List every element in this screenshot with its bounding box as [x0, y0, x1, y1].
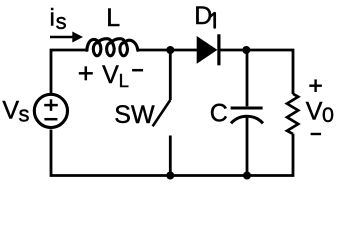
wire: inductor to diode anode — [137, 49, 197, 52]
label +VL- : minus — [132, 69, 143, 72]
voltage source plus sign — [44, 99, 58, 111]
svg-text:s: s — [19, 101, 30, 126]
svg-text:SW: SW — [114, 101, 155, 129]
label + (output) — [309, 79, 322, 92]
voltage source minus sign — [44, 118, 57, 121]
svg-text:V: V — [2, 96, 19, 124]
inductor L1 coil — [87, 39, 138, 56]
capacitor C top plate — [231, 107, 263, 110]
svg-text:V: V — [102, 61, 119, 89]
svg-text:0: 0 — [322, 103, 334, 127]
junction dot: capacitor bottom node — [243, 172, 251, 180]
svg-text:C: C — [210, 100, 228, 128]
junction dot: switch bottom node — [166, 172, 174, 180]
voltage source VS circle — [34, 94, 67, 127]
wire left branch: source to top-left corner and top rail to inductor — [51, 50, 88, 93]
junction dot: capacitor top node — [242, 46, 250, 54]
capacitor C bottom curved plate — [231, 116, 263, 123]
wire: switch bottom stub — [169, 136, 172, 176]
resistor R (load) zigzag — [287, 94, 298, 134]
label - (output) — [311, 133, 322, 135]
wire: switch top branch — [169, 50, 172, 100]
svg-text:L: L — [119, 70, 129, 91]
diode D1 triangle — [197, 36, 218, 64]
switch SW blade (open) — [153, 100, 171, 126]
wire: diode cathode to top-right corner, down to resistor — [218, 50, 293, 94]
label +VL- : plus — [79, 66, 93, 80]
current arrow is — [50, 36, 73, 39]
wire: capacitor top branch — [246, 50, 249, 106]
svg-text:i: i — [50, 5, 55, 32]
diode D1 cathode bar — [217, 34, 220, 65]
svg-text:V: V — [306, 97, 323, 125]
svg-text:s: s — [56, 9, 67, 34]
svg-text:L: L — [106, 4, 120, 32]
wire: capacitor bottom branch — [246, 117, 249, 176]
junction dot: switch top node — [166, 46, 174, 54]
wire: resistor to bottom rail, bottom rail, left rail up to source — [51, 130, 293, 176]
